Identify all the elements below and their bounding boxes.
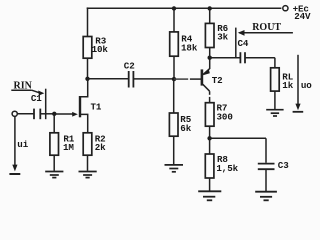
wire RL to ground bbox=[274, 91, 276, 109]
wire C1 to node E bbox=[41, 113, 54, 115]
arrow uo (output voltage) bbox=[297, 55, 299, 105]
terminal input ui bbox=[12, 111, 17, 116]
svg-text:T2: T2 bbox=[212, 75, 223, 86]
wire R1 to ground bbox=[53, 155, 55, 171]
svg-text:ROUT: ROUT bbox=[252, 22, 281, 33]
svg-text:2k: 2k bbox=[95, 142, 106, 153]
svg-text:T1: T1 bbox=[91, 101, 102, 112]
wire rail to R3 bbox=[87, 7, 89, 36]
wire R6 to node C bbox=[209, 48, 211, 58]
wire RIN reference line bbox=[45, 89, 47, 120]
ground (R1) bbox=[45, 172, 63, 178]
svg-text:24V: 24V bbox=[294, 11, 311, 22]
wire node E to R1 bbox=[53, 114, 55, 133]
capacitor C3 bbox=[258, 164, 275, 170]
resistor R7 bbox=[205, 103, 214, 127]
wire ROUT reference line bbox=[235, 28, 237, 58]
ground (RL) bbox=[266, 110, 283, 116]
transistor T1 collector lead bbox=[81, 79, 88, 97]
transistor T2 arrow bbox=[203, 69, 210, 75]
terminal +Ec bbox=[283, 6, 288, 11]
wire R4 to node B bbox=[173, 56, 175, 79]
capacitor C4 bbox=[240, 52, 245, 63]
svg-text:ui: ui bbox=[17, 139, 28, 150]
svg-text:3k: 3k bbox=[217, 32, 228, 43]
transistor T1 (base bar) bbox=[79, 96, 81, 117]
svg-text:10k: 10k bbox=[92, 44, 109, 55]
svg-text:C4: C4 bbox=[238, 38, 249, 49]
wire C4 to RL bbox=[245, 57, 275, 59]
node C (T2 collector / R6 / C4) bbox=[208, 56, 212, 60]
wire C3 to ground bbox=[265, 170, 267, 191]
transistor T2 (base bar) bbox=[201, 69, 204, 85]
svg-text:1M: 1M bbox=[63, 142, 74, 153]
node A (T1 collector node) bbox=[85, 77, 89, 81]
svg-text:300: 300 bbox=[217, 112, 233, 123]
svg-text:C1: C1 bbox=[31, 93, 42, 104]
wire R7 to node D bbox=[209, 126, 211, 138]
resistor R3 bbox=[83, 37, 92, 59]
resistor R2 bbox=[83, 133, 92, 155]
svg-text:C3: C3 bbox=[278, 160, 289, 171]
resistor R5 bbox=[169, 113, 178, 136]
svg-text:C2: C2 bbox=[124, 60, 135, 71]
wire rail to R6 bbox=[209, 8, 211, 23]
resistor R1 bbox=[50, 133, 59, 155]
svg-text:1,5k: 1,5k bbox=[216, 163, 238, 174]
ground (R8) bbox=[198, 191, 221, 200]
node rail-R6 junction bbox=[208, 6, 212, 10]
wire R8 to ground bbox=[209, 178, 211, 191]
arrow ui (input voltage) bbox=[14, 117, 16, 166]
wire node D to C3 bbox=[210, 137, 266, 139]
node rail-R4 junction bbox=[172, 6, 176, 10]
resistor R8 bbox=[205, 154, 214, 178]
wire R5 to ground bbox=[173, 136, 175, 164]
node B (R4/R5/C2/T2 base) bbox=[172, 77, 176, 81]
node E (input node) bbox=[52, 112, 56, 116]
arrow RIN bbox=[11, 89, 31, 91]
svg-text:1k: 1k bbox=[282, 80, 293, 91]
resistor R4 bbox=[170, 32, 179, 56]
wire R3 to node A bbox=[87, 58, 89, 79]
svg-text:RIN: RIN bbox=[14, 80, 33, 91]
wire rail to R4 bbox=[173, 8, 175, 32]
ground (R2) bbox=[79, 172, 97, 178]
capacitor C2 bbox=[129, 71, 134, 88]
svg-text:6k: 6k bbox=[180, 123, 191, 134]
resistor RL bbox=[271, 68, 280, 91]
wire node C to C4 bbox=[210, 57, 240, 59]
wire node B to R5 bbox=[173, 79, 175, 113]
ground (R5) bbox=[165, 165, 184, 172]
svg-text:uo: uo bbox=[301, 80, 312, 91]
transistor T2 collector lead to node C bbox=[203, 69, 210, 75]
transistor T2 emitter lead to R7 bbox=[203, 84, 210, 91]
transistor T1 emitter lead bbox=[81, 114, 88, 132]
arrow ROUT bbox=[239, 32, 293, 34]
wire top supply rail bbox=[87, 7, 282, 9]
wire C2 to node B bbox=[134, 78, 174, 80]
wire node A to C2 bbox=[88, 78, 129, 80]
wire node E to T1 base with arrow bbox=[54, 113, 72, 115]
ground (C3) bbox=[255, 192, 277, 201]
wire node B to T2 base (small scan gap) bbox=[174, 78, 188, 80]
wire R2 to ground bbox=[87, 155, 89, 171]
svg-text:18k: 18k bbox=[181, 42, 198, 53]
wire node D to R8 bbox=[209, 138, 211, 154]
resistor R6 bbox=[205, 23, 214, 47]
wire input to C1 bbox=[17, 113, 33, 115]
capacitor C1 bbox=[34, 109, 40, 120]
node D (R7/R8/C3) bbox=[207, 136, 211, 140]
